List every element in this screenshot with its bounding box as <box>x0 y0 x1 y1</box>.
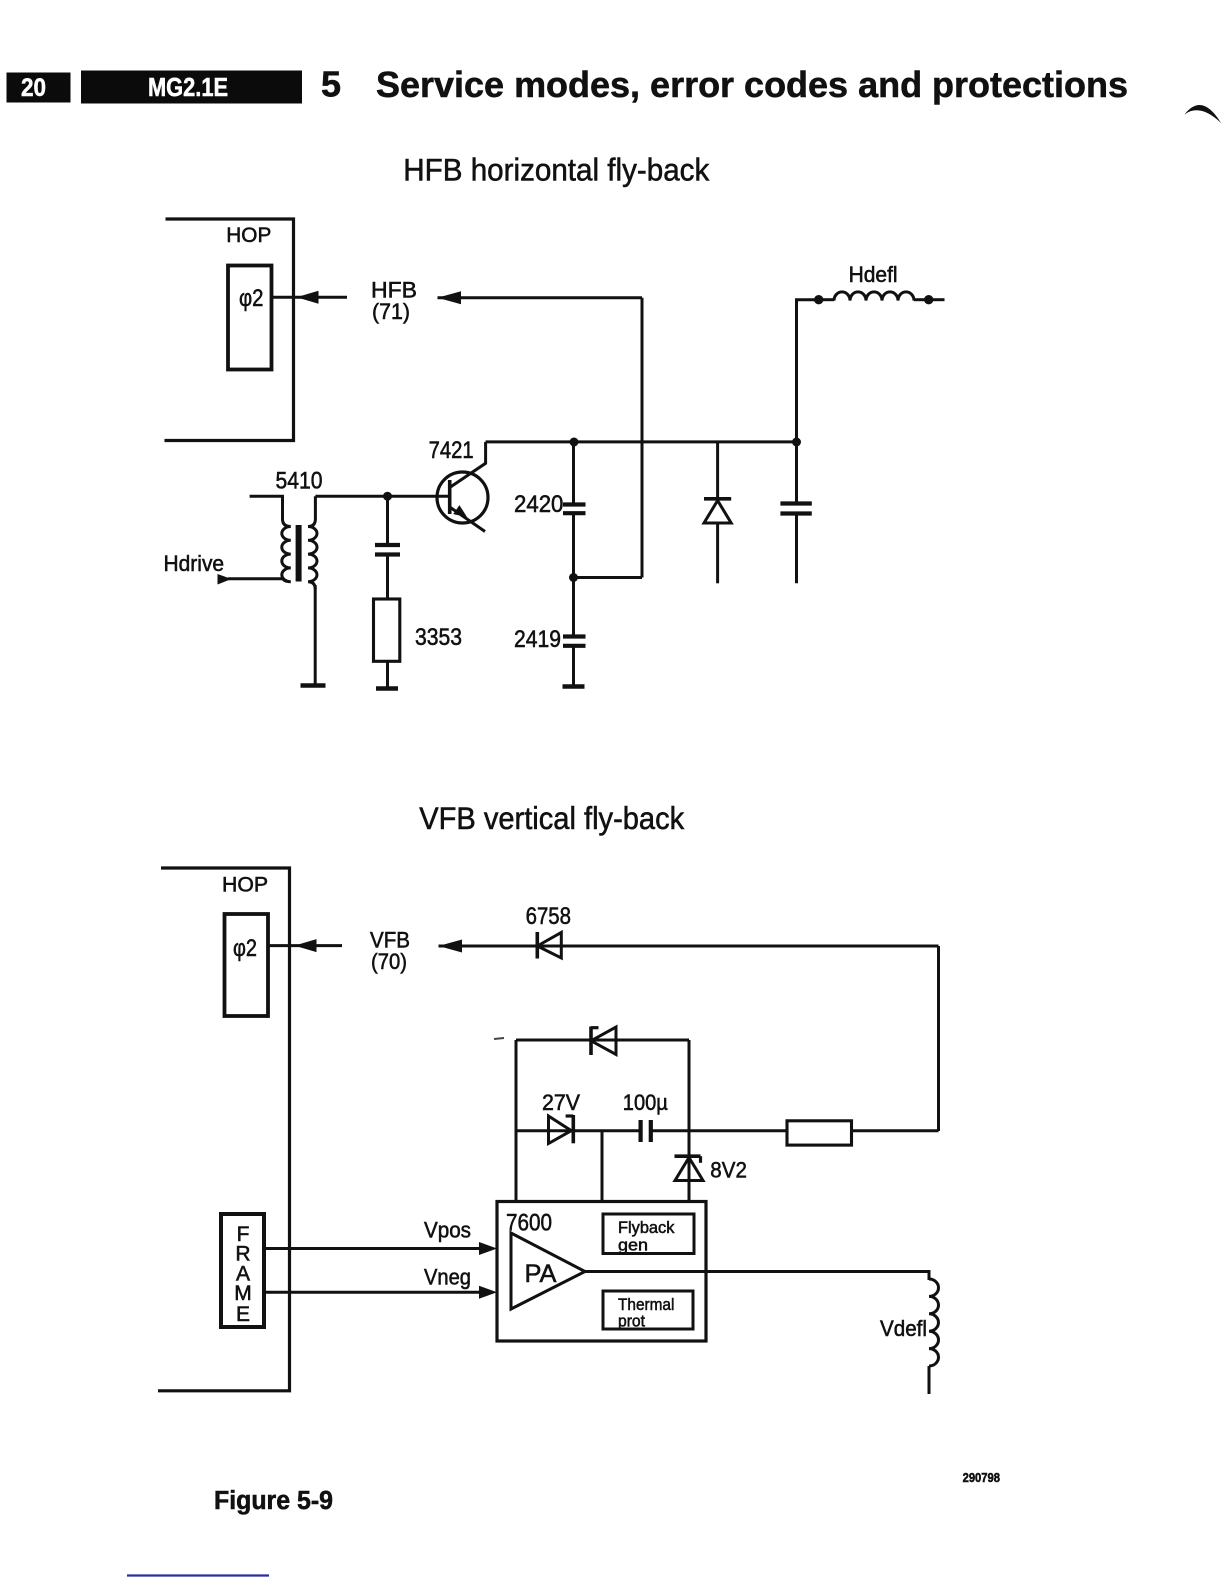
arrowhead into phi2 box 2 <box>295 939 317 952</box>
capacitor C2419 <box>563 637 586 646</box>
collector top wire <box>486 440 797 443</box>
svg-text:Flyback: Flyback <box>618 1218 675 1237</box>
diode loop cathode bar <box>591 1027 599 1056</box>
FRAME box <box>221 1214 264 1327</box>
arrowhead VFB feedback <box>439 940 463 953</box>
svg-text:5410: 5410 <box>276 468 323 495</box>
HOP block 1 <box>165 219 294 441</box>
wire capacitor to resistor <box>386 555 389 600</box>
wire below retrace cap <box>795 514 798 584</box>
HOP block 2 <box>158 868 290 1391</box>
wire resistor to ground <box>386 661 389 688</box>
capacitor base (plates) <box>375 545 400 555</box>
wire secondary bottom to ground <box>314 585 317 685</box>
svg-text:Vneg: Vneg <box>424 1265 471 1290</box>
Hdrive arrowhead <box>218 574 232 585</box>
diode 6758 <box>537 932 561 959</box>
wire HFB feedback horizontal <box>438 296 643 299</box>
node Hdefl right dot <box>924 295 933 304</box>
node collector junction dot <box>570 438 579 447</box>
svg-text:PA: PA <box>525 1260 557 1288</box>
svg-text:2419: 2419 <box>514 626 561 653</box>
inductor Vdefl <box>929 1279 939 1366</box>
svg-text:Hdefl: Hdefl <box>849 262 898 287</box>
FRAME letters <box>234 1223 252 1326</box>
transformer secondary top wire to base <box>315 495 449 498</box>
svg-text:2420: 2420 <box>514 491 563 518</box>
svg-text:MG2.1E: MG2.1E <box>148 72 228 102</box>
arrowhead Vneg <box>479 1286 497 1299</box>
arrowhead into phi2 box 1 <box>297 291 319 304</box>
inductor Hdefl <box>819 292 929 301</box>
wire loop left vertical <box>515 1040 518 1202</box>
scan arc mark top right <box>1185 105 1222 123</box>
wire Vneg <box>264 1291 484 1294</box>
svg-text:prot: prot <box>618 1312 645 1331</box>
wire C2420 to tap <box>572 513 575 577</box>
wire below Vdefl <box>928 1366 931 1394</box>
transistor emitter arrowhead <box>453 505 467 517</box>
wire C2419 to ground <box>572 646 575 686</box>
wire diode branch <box>716 442 719 497</box>
ground under transformer <box>301 683 326 688</box>
svg-text:3353: 3353 <box>415 624 462 651</box>
wire loop top <box>516 1039 689 1042</box>
wire Hdefl stub <box>929 298 945 301</box>
wire 27V line left <box>516 1129 641 1132</box>
svg-text:6758: 6758 <box>526 903 571 930</box>
diode 27V <box>549 1115 574 1144</box>
phi2 box 2 <box>225 914 269 1016</box>
Flyback gen box <box>603 1214 694 1255</box>
node retrace cap junction dot <box>792 438 801 447</box>
diode damper triangle <box>704 501 731 524</box>
svg-text:HFB horizontal fly-back: HFB horizontal fly-back <box>403 152 709 188</box>
svg-text:gen: gen <box>618 1236 648 1255</box>
svg-text:φ2: φ2 <box>239 285 264 312</box>
IC PA box 7600 <box>497 1202 706 1342</box>
phi2 box 1 <box>228 266 272 370</box>
wire VFB into phi2 <box>268 944 342 947</box>
svg-text:VFB vertical fly-back: VFB vertical fly-back <box>419 800 684 836</box>
svg-text:27V: 27V <box>542 1090 580 1115</box>
transformer secondary winding <box>308 496 317 589</box>
zener 8V2 bar <box>675 1156 701 1163</box>
arrowhead HFB feedback <box>438 291 462 304</box>
arrowhead Vpos <box>479 1242 497 1255</box>
transformer primary winding <box>282 519 291 582</box>
wire zener branch <box>688 1131 691 1202</box>
svg-text:5: 5 <box>321 64 341 105</box>
node Hdefl left dot <box>814 295 823 304</box>
svg-text:Vdefl: Vdefl <box>880 1316 927 1341</box>
header page number box <box>7 73 71 103</box>
op-amp PA triangle <box>511 1233 585 1309</box>
resistor feedback <box>787 1121 852 1145</box>
svg-text:(71): (71) <box>372 299 410 324</box>
svg-text:M: M <box>234 1282 252 1305</box>
ground under resistor <box>376 686 398 691</box>
blue pen line bottom left <box>127 1574 269 1576</box>
wire 27V junction drop <box>601 1131 604 1202</box>
transistor collector lead <box>450 442 486 488</box>
wire HFB tap horizontal <box>574 576 643 579</box>
svg-text:Vpos: Vpos <box>424 1218 471 1243</box>
wire junction to capacitor <box>386 496 389 544</box>
resistor 3353 <box>374 599 400 661</box>
svg-text:7421: 7421 <box>429 437 474 464</box>
scan dash artifact <box>494 1038 504 1039</box>
wire Vpos <box>264 1247 484 1250</box>
wire loop right vertical <box>688 1040 691 1131</box>
capacitor C2420 <box>563 505 586 514</box>
node base junction dot <box>383 492 392 501</box>
wire 100u to resistor <box>651 1129 787 1132</box>
node tap junction dot <box>569 573 578 582</box>
wire resistor to corner <box>852 1129 939 1132</box>
svg-text:8V2: 8V2 <box>710 1158 747 1183</box>
svg-text:100µ: 100µ <box>623 1090 668 1115</box>
wire collector to C2420 <box>572 442 575 503</box>
svg-text:Figure 5-9: Figure 5-9 <box>214 1487 333 1515</box>
diode loop triangle <box>591 1027 616 1055</box>
transformer core bar <box>296 525 302 582</box>
capacitor 100u <box>641 1120 651 1142</box>
capacitor retrace (plates) <box>780 504 811 514</box>
ground under C2419 <box>563 684 585 689</box>
svg-text:20: 20 <box>21 74 46 102</box>
header chassis box MG2.1E <box>81 71 302 104</box>
Hdrive wire <box>228 577 284 580</box>
transistor base bar <box>448 480 452 514</box>
wire PA output <box>585 1272 929 1281</box>
transistor emitter lead <box>450 507 485 532</box>
wire below diode <box>716 523 719 583</box>
diode damper cathode bar <box>704 497 731 501</box>
transistor Q7421 circle <box>437 472 488 523</box>
Thermal prot box <box>603 1291 693 1331</box>
svg-text:φ2: φ2 <box>233 935 257 962</box>
svg-text:Hdrive: Hdrive <box>164 551 225 576</box>
wire HFB feedback vertical <box>641 298 644 578</box>
wire up to Hdefl <box>797 300 819 442</box>
wire junction to retrace cap <box>795 442 798 502</box>
zener 8V2 triangle <box>675 1158 703 1181</box>
svg-text:(70): (70) <box>371 949 407 974</box>
svg-text:290798: 290798 <box>963 1470 1000 1485</box>
wire HFB into phi2 <box>272 296 347 299</box>
svg-text:HOP: HOP <box>222 873 268 897</box>
wire VFB feedback horizontal <box>439 945 939 948</box>
svg-text:HOP: HOP <box>226 223 271 247</box>
wire VFB feedback vertical <box>937 946 940 1131</box>
svg-text:E: E <box>236 1303 250 1326</box>
transformer input stub top left <box>250 496 283 519</box>
svg-text:Service modes, error codes and: Service modes, error codes and protectio… <box>376 64 1128 105</box>
wire tap to C2419 <box>572 578 575 636</box>
